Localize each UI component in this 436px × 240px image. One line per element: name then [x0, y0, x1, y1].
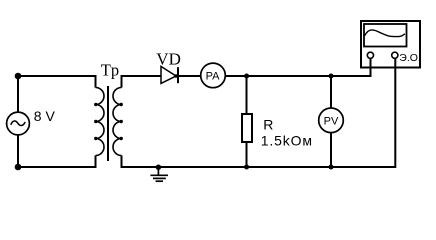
- svg-text:PV: PV: [324, 115, 339, 127]
- wire: source vertical bottom: [17, 135, 19, 167]
- transformer Tp: primary winding: [96, 88, 105, 156]
- wire: voltmeter top stub: [330, 76, 332, 108]
- node: source top: [15, 73, 22, 80]
- node: resistor bottom junction: [244, 165, 249, 170]
- diode apex dot: [174, 74, 178, 78]
- node: voltmeter bottom junction: [329, 165, 334, 170]
- wire: resistor bottom stub: [246, 143, 248, 168]
- svg-text:R: R: [263, 116, 273, 132]
- resistor R: [242, 114, 252, 142]
- wire: secondary bottom: [122, 59, 396, 167]
- svg-text:Э.О.: Э.О.: [399, 52, 421, 64]
- diode VD: [161, 66, 178, 83]
- transformer Tp: primary cusp dots: [94, 103, 97, 140]
- svg-text:8 V: 8 V: [34, 108, 56, 124]
- wire: resistor top stub: [246, 76, 248, 114]
- wire: secondary top (transformer to diode): [122, 76, 162, 88]
- wire: ammeter to scope corner: [225, 59, 370, 76]
- oscilloscope terminal left: [367, 52, 373, 58]
- voltmeter PV: [319, 108, 344, 133]
- node: source bottom: [15, 164, 22, 171]
- wire: source vertical top: [17, 76, 19, 112]
- wire: diode to ammeter: [179, 75, 201, 77]
- transformer core: [107, 86, 109, 161]
- ac source G1: [7, 112, 30, 135]
- oscilloscope terminal right: [392, 52, 398, 58]
- svg-text:1.5kОм: 1.5kОм: [261, 133, 313, 149]
- ground: [150, 167, 168, 181]
- ammeter PA: [201, 63, 226, 88]
- node B: voltmeter top junction: [329, 74, 334, 79]
- node A: resistor top junction: [244, 74, 249, 79]
- transformer Tp: secondary winding: [113, 88, 122, 156]
- svg-text:Tp: Tp: [101, 61, 119, 80]
- oscilloscope waveform: [365, 30, 405, 37]
- node: ground junction: [156, 165, 161, 170]
- svg-text:VD: VD: [156, 49, 181, 68]
- oscilloscope box: [361, 21, 420, 68]
- oscilloscope screen: [364, 24, 407, 47]
- wire: primary top (source to transformer): [18, 76, 96, 88]
- wire: primary bottom: [18, 156, 96, 168]
- wire: voltmeter bottom stub: [330, 133, 332, 167]
- svg-text:PA: PA: [206, 70, 221, 82]
- transformer Tp: secondary cusp dots: [120, 103, 123, 140]
